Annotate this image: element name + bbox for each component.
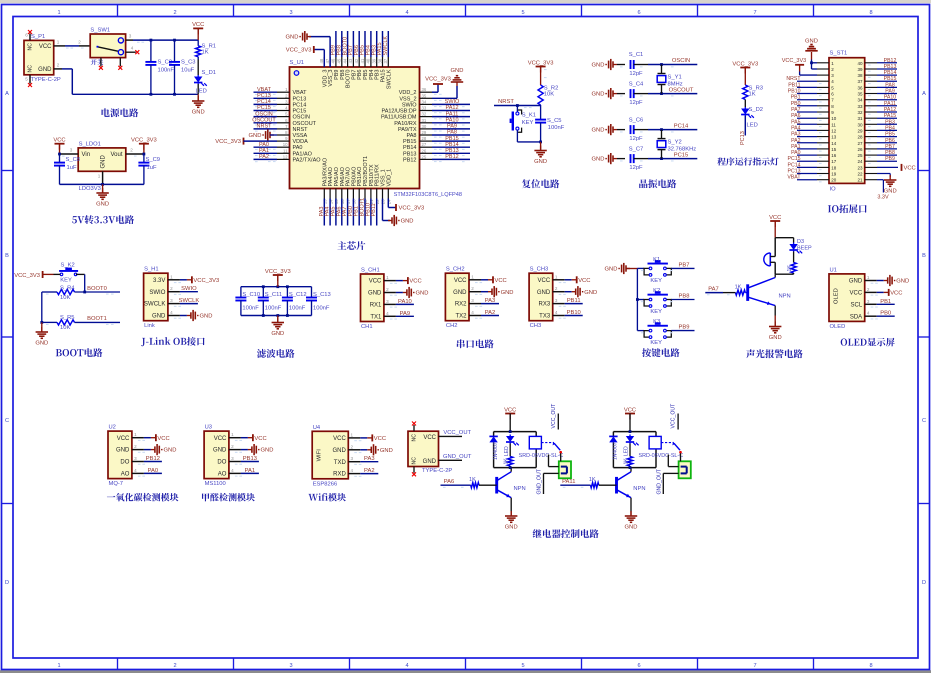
svg-text:4: 4 xyxy=(231,468,234,473)
svg-text:S_C12: S_C12 xyxy=(289,292,307,298)
svg-text:MS1100: MS1100 xyxy=(205,481,226,487)
svg-text:3: 3 xyxy=(867,299,870,304)
push button K3 xyxy=(637,319,694,346)
svg-text:VCC: VCC xyxy=(409,279,421,285)
push button S_K2 xyxy=(54,262,85,283)
svg-text:33: 33 xyxy=(857,104,863,109)
svg-text:1: 1 xyxy=(170,274,173,279)
svg-text:SWCLK: SWCLK xyxy=(144,302,165,308)
svg-text:22: 22 xyxy=(857,172,863,177)
IC top pins 48-37 xyxy=(319,57,392,89)
svg-text:44: 44 xyxy=(342,58,347,63)
svg-text:4: 4 xyxy=(351,468,354,473)
svg-text:13: 13 xyxy=(831,135,837,140)
caption 晶振电路 xyxy=(639,179,676,188)
resistor S_R1 xyxy=(196,40,216,59)
svg-text:43: 43 xyxy=(348,58,353,63)
svg-text:NC: NC xyxy=(28,43,34,51)
svg-text:17: 17 xyxy=(831,159,837,164)
svg-text:37: 37 xyxy=(857,79,863,84)
svg-text:12pF: 12pF xyxy=(629,136,643,142)
connector S_CH1 xyxy=(361,268,429,331)
svg-text:S_CH2: S_CH2 xyxy=(446,267,465,273)
relay coil SRD-05VDC-SL-C left xyxy=(519,436,564,459)
caption 程序运行指示灯 xyxy=(717,157,778,165)
LED (relay) left xyxy=(504,435,519,457)
svg-text:2: 2 xyxy=(231,444,234,449)
capacitor S_C13 xyxy=(306,287,331,316)
wire relay contacts out left xyxy=(537,453,561,494)
svg-text:PA2: PA2 xyxy=(791,138,801,144)
svg-text:11: 11 xyxy=(283,148,288,153)
svg-text:BEEP: BEEP xyxy=(797,246,812,252)
svg-text:1K: 1K xyxy=(623,458,629,465)
svg-text:VCC: VCC xyxy=(333,436,346,442)
svg-text:PA5: PA5 xyxy=(791,119,801,125)
svg-text:PC14: PC14 xyxy=(788,162,801,168)
svg-text:VCC_3V3: VCC_3V3 xyxy=(782,58,806,64)
power port VCC_3V3 (VDDA) xyxy=(215,138,277,146)
capacitor S_C10 xyxy=(235,287,260,316)
wire relay collector right xyxy=(630,468,632,472)
svg-text:3: 3 xyxy=(231,456,234,461)
svg-text:S_P1: S_P1 xyxy=(31,34,45,40)
power port VCC_3V3 (filter) xyxy=(265,269,291,287)
svg-text:25: 25 xyxy=(857,153,863,158)
svg-text:30: 30 xyxy=(422,124,427,129)
resistor S_R2 xyxy=(538,85,558,106)
svg-text:VDDA: VDDA xyxy=(293,139,309,145)
svg-text:34: 34 xyxy=(422,99,427,104)
svg-text:VCC: VCC xyxy=(369,279,382,285)
svg-text:PA1: PA1 xyxy=(245,468,256,474)
power port VCC xyxy=(192,22,204,40)
svg-text:VDD_1: VDD_1 xyxy=(386,169,392,187)
svg-text:35: 35 xyxy=(422,93,427,98)
connector U1 OLED xyxy=(829,267,909,330)
svg-text:NPN: NPN xyxy=(633,486,645,492)
svg-text:D3: D3 xyxy=(797,239,804,245)
svg-text:SWIO: SWIO xyxy=(445,99,460,105)
svg-text:PA1: PA1 xyxy=(259,148,269,154)
power port VCC_3V3 xyxy=(131,138,157,155)
module U4 ESP8266 WIFI xyxy=(312,425,393,488)
svg-text:TX1: TX1 xyxy=(370,314,382,320)
svg-text:CH2: CH2 xyxy=(446,323,458,329)
caption IO拓展口 xyxy=(828,204,867,213)
terminal block JK (relay out) left xyxy=(559,461,571,478)
svg-text:AO: AO xyxy=(218,472,227,478)
svg-text:46: 46 xyxy=(331,58,336,63)
svg-text:DO: DO xyxy=(120,460,129,466)
svg-text:Vout: Vout xyxy=(110,152,122,158)
svg-text:PB15: PB15 xyxy=(884,76,897,82)
svg-text:VCC: VCC xyxy=(504,407,516,413)
svg-text:GND: GND xyxy=(592,92,605,98)
svg-text:3: 3 xyxy=(129,34,132,39)
power port VCC (relay) left xyxy=(504,407,516,431)
resistor alarm 1K xyxy=(787,252,796,275)
svg-text:36: 36 xyxy=(422,87,427,92)
push button S_K1 xyxy=(510,106,541,142)
svg-text:PA0: PA0 xyxy=(791,150,801,156)
svg-text:STM32F103C8T6_LQFP48: STM32F103C8T6_LQFP48 xyxy=(394,192,462,198)
caption 主芯片 xyxy=(337,241,365,250)
svg-text:U4: U4 xyxy=(313,425,321,431)
svg-text:S_K2: S_K2 xyxy=(61,262,75,268)
svg-text:S_R4: S_R4 xyxy=(60,285,75,291)
svg-text:12pF: 12pF xyxy=(629,165,643,171)
svg-text:VCC: VCC xyxy=(39,44,52,50)
relay coil SRD-05VDC-SL-C right xyxy=(638,436,683,459)
junction xyxy=(262,285,289,317)
svg-text:KEY: KEY xyxy=(650,309,662,315)
svg-text:GND: GND xyxy=(423,459,437,465)
connector S_CH3 xyxy=(529,267,597,330)
svg-text:2: 2 xyxy=(173,10,176,16)
caption 继电器控制电路 xyxy=(533,529,599,538)
svg-text:PA6: PA6 xyxy=(444,479,455,485)
svg-text:PA9: PA9 xyxy=(885,89,895,95)
svg-text:PB7: PB7 xyxy=(679,262,690,268)
ground (relay) right xyxy=(625,511,638,531)
connector S_CH2 xyxy=(445,267,513,330)
ground (VSS_1) xyxy=(383,199,414,227)
wire key rail xyxy=(636,269,639,331)
svg-text:PA11: PA11 xyxy=(562,479,575,485)
svg-text:GND: GND xyxy=(164,448,177,454)
svg-text:OSCOUT: OSCOUT xyxy=(293,121,317,127)
svg-text:GND: GND xyxy=(152,314,166,320)
caption J-Link OB接口 xyxy=(141,337,204,346)
svg-text:29: 29 xyxy=(422,130,427,135)
module U3 MS1100 xyxy=(204,425,273,488)
svg-text:VCC: VCC xyxy=(890,291,902,297)
wire relay collector left xyxy=(510,468,512,472)
svg-text:32: 32 xyxy=(422,112,427,117)
svg-text:PC15: PC15 xyxy=(674,152,689,158)
svg-text:100nF: 100nF xyxy=(242,305,259,311)
svg-text:GND: GND xyxy=(416,291,429,297)
svg-text:S_C1: S_C1 xyxy=(629,52,644,58)
svg-text:SWCLK: SWCLK xyxy=(386,69,392,89)
svg-text:BOOT0: BOOT0 xyxy=(87,286,107,292)
svg-text:PC13: PC13 xyxy=(788,169,801,175)
svg-text:SRD-05VDC-SL-C: SRD-05VDC-SL-C xyxy=(638,453,683,459)
resistor relay base 1K left xyxy=(441,477,497,488)
svg-text:PA2: PA2 xyxy=(485,310,496,316)
svg-text:PA11: PA11 xyxy=(446,111,459,117)
svg-text:12pF: 12pF xyxy=(629,100,643,106)
svg-text:K3: K3 xyxy=(653,319,660,325)
svg-text:VCC_3V3: VCC_3V3 xyxy=(131,138,157,144)
svg-text:C: C xyxy=(922,418,926,424)
svg-text:1K: 1K xyxy=(504,458,510,465)
svg-text:24: 24 xyxy=(857,159,863,164)
svg-text:PC14: PC14 xyxy=(674,123,689,129)
svg-text:GND: GND xyxy=(769,335,782,341)
svg-text:3.3V: 3.3V xyxy=(153,278,165,284)
wires IO left nets xyxy=(786,76,821,182)
svg-text:PB8: PB8 xyxy=(679,294,690,300)
svg-text:VCC: VCC xyxy=(769,215,781,221)
svg-text:U2: U2 xyxy=(109,425,116,431)
svg-text:3: 3 xyxy=(386,299,389,304)
svg-text:S_C10: S_C10 xyxy=(242,292,260,298)
caption Wifi模块 xyxy=(308,493,346,501)
svg-text:VCC: VCC xyxy=(157,436,169,442)
svg-text:S_C7: S_C7 xyxy=(629,146,644,152)
wire relay frame left xyxy=(494,432,537,468)
svg-text:VCC_OUT: VCC_OUT xyxy=(671,403,677,429)
svg-text:VCC: VCC xyxy=(192,22,204,28)
svg-text:GND: GND xyxy=(401,219,414,225)
power port VCC_3V3 (VDD_3) xyxy=(286,46,325,67)
svg-text:B: B xyxy=(922,253,926,259)
svg-text:LED: LED xyxy=(196,89,207,95)
svg-text:4: 4 xyxy=(131,46,134,51)
svg-text:SCL: SCL xyxy=(851,302,863,308)
svg-text:PA1: PA1 xyxy=(791,144,801,150)
svg-text:1: 1 xyxy=(351,432,354,437)
svg-text:PB1: PB1 xyxy=(880,299,891,305)
svg-text:10K: 10K xyxy=(544,92,554,98)
svg-text:SWIO: SWIO xyxy=(402,102,417,108)
diode 1N4007 (flyback) left xyxy=(489,436,498,460)
svg-text:TYPE-C-2P: TYPE-C-2P xyxy=(422,468,452,474)
svg-text:VCC: VCC xyxy=(53,138,65,144)
svg-text:GND: GND xyxy=(192,110,205,116)
svg-text:4: 4 xyxy=(867,311,870,316)
svg-text:TXD: TXD xyxy=(334,460,347,466)
crystal S_Y2 32.768KHz xyxy=(657,130,696,159)
caption 按键电路 xyxy=(642,348,680,357)
svg-text:VCC_3V3: VCC_3V3 xyxy=(193,278,219,284)
svg-text:1: 1 xyxy=(231,432,234,437)
svg-text:NC: NC xyxy=(412,457,418,465)
svg-text:S_ST1: S_ST1 xyxy=(830,51,848,57)
svg-text:6: 6 xyxy=(637,10,640,16)
svg-text:S_D2: S_D2 xyxy=(749,107,764,113)
svg-text:GND: GND xyxy=(805,39,818,45)
push button K1 xyxy=(637,257,694,284)
svg-text:32.768KHz: 32.768KHz xyxy=(668,147,697,153)
svg-text:35: 35 xyxy=(857,92,863,97)
svg-text:GND: GND xyxy=(200,314,213,320)
svg-text:VCC_3V3: VCC_3V3 xyxy=(286,48,312,54)
svg-text:GND: GND xyxy=(249,133,262,139)
svg-text:PA9: PA9 xyxy=(400,311,411,317)
svg-text:PA3: PA3 xyxy=(791,132,801,138)
capacitor S_C2 xyxy=(145,40,174,94)
svg-text:PB12: PB12 xyxy=(445,154,458,160)
switch S_SW1 xyxy=(90,28,139,70)
svg-text:GND: GND xyxy=(101,155,107,169)
svg-text:2: 2 xyxy=(386,287,389,292)
svg-text:GND: GND xyxy=(605,267,618,273)
svg-text:VCC: VCC xyxy=(117,436,130,442)
svg-text:4: 4 xyxy=(405,10,408,16)
ground (VSS_3) xyxy=(286,31,331,67)
svg-text:PB13: PB13 xyxy=(403,151,416,157)
svg-text:32: 32 xyxy=(857,110,863,115)
wire PC13 net xyxy=(740,116,746,145)
svg-text:GND: GND xyxy=(38,67,52,73)
svg-text:PB3: PB3 xyxy=(885,119,895,125)
svg-text:2: 2 xyxy=(867,287,870,292)
relay switch contact left xyxy=(541,403,562,454)
svg-text:PB13: PB13 xyxy=(243,456,257,462)
svg-text:GND: GND xyxy=(368,291,382,297)
caption 串口电路 xyxy=(457,339,494,348)
ground (keys) xyxy=(605,263,638,274)
svg-text:VCC: VCC xyxy=(254,436,266,442)
svg-text:PA9: PA9 xyxy=(447,124,457,130)
svg-text:PC13: PC13 xyxy=(293,96,307,102)
svg-text:1: 1 xyxy=(57,663,60,669)
svg-text:PA0: PA0 xyxy=(148,468,159,474)
svg-text:OLED: OLED xyxy=(834,288,840,304)
svg-text:OSCIN: OSCIN xyxy=(672,58,690,64)
svg-text:1: 1 xyxy=(57,39,60,44)
svg-text:45: 45 xyxy=(337,58,342,63)
ground (alarm) xyxy=(769,322,782,342)
LED S_D2 xyxy=(741,100,763,129)
svg-text:GND: GND xyxy=(35,341,48,347)
svg-text:NRST: NRST xyxy=(293,127,309,133)
wires chip right nets xyxy=(432,99,470,162)
svg-text:100nF: 100nF xyxy=(158,68,175,74)
svg-text:PB8: PB8 xyxy=(885,150,895,156)
svg-text:1: 1 xyxy=(57,10,60,16)
svg-text:PB10: PB10 xyxy=(567,310,581,316)
power port VCC (IO pin23) xyxy=(877,164,916,172)
svg-text:GND: GND xyxy=(261,448,274,454)
svg-text:S_K1: S_K1 xyxy=(522,113,536,119)
svg-text:VCC: VCC xyxy=(454,278,467,284)
capacitor S_C1 xyxy=(592,52,698,77)
svg-text:GND: GND xyxy=(592,128,605,134)
svg-text:5: 5 xyxy=(521,663,524,669)
svg-text:RX1: RX1 xyxy=(370,303,382,309)
svg-text:PA10: PA10 xyxy=(884,95,896,101)
IC bottom pins 13-24 xyxy=(322,156,392,204)
power port VCC_3V3 (VDD_2) xyxy=(425,77,451,93)
resistor S_R3 xyxy=(743,85,763,100)
IC S_U1 STM32F103C8T6 LQFP48 xyxy=(290,60,463,198)
wire boot gnd rail xyxy=(40,292,43,324)
svg-text:37: 37 xyxy=(383,58,388,63)
svg-text:VCC_3V3: VCC_3V3 xyxy=(528,60,554,66)
svg-text:40: 40 xyxy=(366,58,371,63)
transistor Q NPN (relay) left xyxy=(497,472,526,498)
svg-text:42: 42 xyxy=(354,58,359,63)
svg-text:S_CH3: S_CH3 xyxy=(530,267,549,273)
svg-text:1uF: 1uF xyxy=(67,165,77,171)
capacitor S_C11 xyxy=(258,287,282,316)
svg-text:NC: NC xyxy=(412,434,418,442)
svg-text:WIFI: WIFI xyxy=(317,449,323,462)
svg-text:IO: IO xyxy=(830,186,837,192)
capacitor S_C4 xyxy=(592,81,698,106)
svg-text:PC13: PC13 xyxy=(257,93,271,99)
wire alarm emitter to gnd xyxy=(774,306,776,326)
power port VCC_3V3 (VDD_1) xyxy=(388,199,424,212)
svg-text:VCC_3V3: VCC_3V3 xyxy=(732,61,758,67)
junction xyxy=(150,93,176,96)
svg-text:PC14: PC14 xyxy=(257,99,271,105)
svg-text:LED: LED xyxy=(624,446,630,456)
svg-text:PA3: PA3 xyxy=(364,456,375,462)
svg-text:38: 38 xyxy=(857,73,863,78)
svg-text:14: 14 xyxy=(831,141,837,146)
svg-text:10K: 10K xyxy=(60,295,70,301)
terminal block JK (relay out) right xyxy=(679,461,691,478)
crystal S_Y1 8MHz xyxy=(657,65,683,94)
svg-text:GND: GND xyxy=(584,290,597,296)
svg-text:3: 3 xyxy=(134,456,137,461)
svg-text:S_C4: S_C4 xyxy=(629,81,644,87)
svg-text:SWIO: SWIO xyxy=(181,286,197,292)
IO header pins xyxy=(817,61,877,183)
wire relay emitter to gnd right xyxy=(630,498,632,515)
capacitor S_C9 xyxy=(138,154,160,184)
module U2 MQ-7 xyxy=(108,425,176,488)
svg-text:VCC_OUT: VCC_OUT xyxy=(443,430,471,436)
svg-text:PA15: PA15 xyxy=(884,113,896,119)
svg-text:30: 30 xyxy=(857,122,863,127)
power port VCC_3V3 (run LED) xyxy=(732,61,758,85)
push button K2 xyxy=(637,288,694,315)
svg-text:NRST: NRST xyxy=(786,76,801,82)
svg-text:PB7: PB7 xyxy=(885,144,895,150)
wire 3.3V net (IO pin21) xyxy=(877,180,889,201)
svg-text:PB12: PB12 xyxy=(403,157,416,163)
svg-text:S_LDO1: S_LDO1 xyxy=(79,141,101,147)
transistor Q NPN (relay) right xyxy=(617,472,646,498)
svg-text:S_CH1: S_CH1 xyxy=(361,268,380,274)
svg-text:2: 2 xyxy=(170,286,173,291)
svg-text:KEY: KEY xyxy=(650,340,662,346)
svg-text:SDA: SDA xyxy=(850,314,862,320)
svg-text:26: 26 xyxy=(422,148,427,153)
wire relay frame right xyxy=(613,432,656,468)
svg-text:LDO3V3: LDO3V3 xyxy=(79,186,101,192)
LED (relay) right xyxy=(624,435,639,457)
ground (VSSA) xyxy=(249,129,277,140)
buzzer B1 xyxy=(764,253,775,274)
svg-text:GND: GND xyxy=(116,448,130,454)
junction right xyxy=(629,430,632,469)
ground xyxy=(35,322,48,346)
svg-text:GND: GND xyxy=(592,157,605,163)
svg-text:KEY: KEY xyxy=(522,120,534,126)
svg-text:3.3V: 3.3V xyxy=(877,195,889,201)
svg-text:CH3: CH3 xyxy=(530,323,542,329)
svg-text:1: 1 xyxy=(471,274,474,279)
svg-text:10K: 10K xyxy=(60,325,70,331)
svg-text:PB4: PB4 xyxy=(885,125,895,131)
svg-text:28: 28 xyxy=(857,135,863,140)
svg-text:PB13: PB13 xyxy=(445,148,458,154)
svg-text:GND: GND xyxy=(505,525,518,531)
svg-text:PA10: PA10 xyxy=(445,118,458,124)
wire LDO gnd rail xyxy=(58,153,145,186)
svg-text:PB6: PB6 xyxy=(885,138,895,144)
svg-text:D: D xyxy=(922,580,926,586)
caption BOOT电路 xyxy=(56,348,103,357)
svg-text:38: 38 xyxy=(377,58,382,63)
